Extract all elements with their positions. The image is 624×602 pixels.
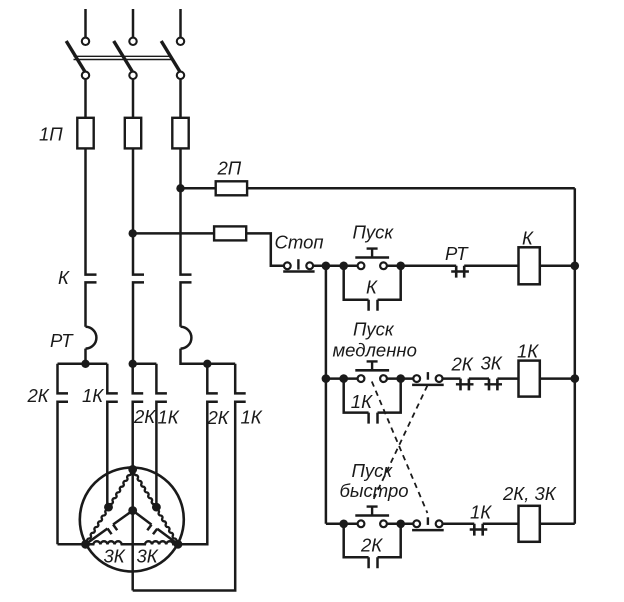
svg-text:быстро: быстро (340, 480, 409, 501)
svg-text:1К: 1К (351, 391, 373, 412)
svg-text:1К: 1К (158, 406, 180, 427)
svg-text:2П: 2П (217, 158, 242, 179)
svg-text:2К: 2К (360, 535, 383, 556)
svg-text:2К: 2К (133, 406, 156, 427)
svg-text:Стоп: Стоп (275, 231, 324, 252)
svg-text:медленно: медленно (333, 339, 417, 360)
svg-text:3К: 3К (481, 353, 503, 374)
svg-text:3К: 3К (137, 546, 159, 567)
svg-text:Пуск: Пуск (352, 460, 394, 481)
svg-text:К: К (366, 276, 378, 297)
svg-text:1К: 1К (241, 407, 263, 428)
svg-text:К: К (522, 227, 534, 248)
svg-text:РТ: РТ (445, 243, 469, 264)
svg-text:РТ: РТ (50, 330, 74, 351)
svg-text:1К: 1К (517, 340, 539, 361)
svg-text:К: К (58, 267, 70, 288)
svg-text:Пуск: Пуск (353, 222, 395, 243)
svg-text:2К, 3К: 2К, 3К (502, 483, 557, 504)
svg-text:2К: 2К (207, 407, 230, 428)
svg-text:1К: 1К (470, 501, 492, 522)
svg-text:3К: 3К (104, 546, 126, 567)
svg-text:1П: 1П (39, 124, 63, 145)
svg-text:1К: 1К (82, 385, 104, 406)
svg-text:2К: 2К (27, 385, 50, 406)
svg-text:2К: 2К (451, 353, 474, 374)
svg-text:Пуск: Пуск (353, 318, 395, 339)
